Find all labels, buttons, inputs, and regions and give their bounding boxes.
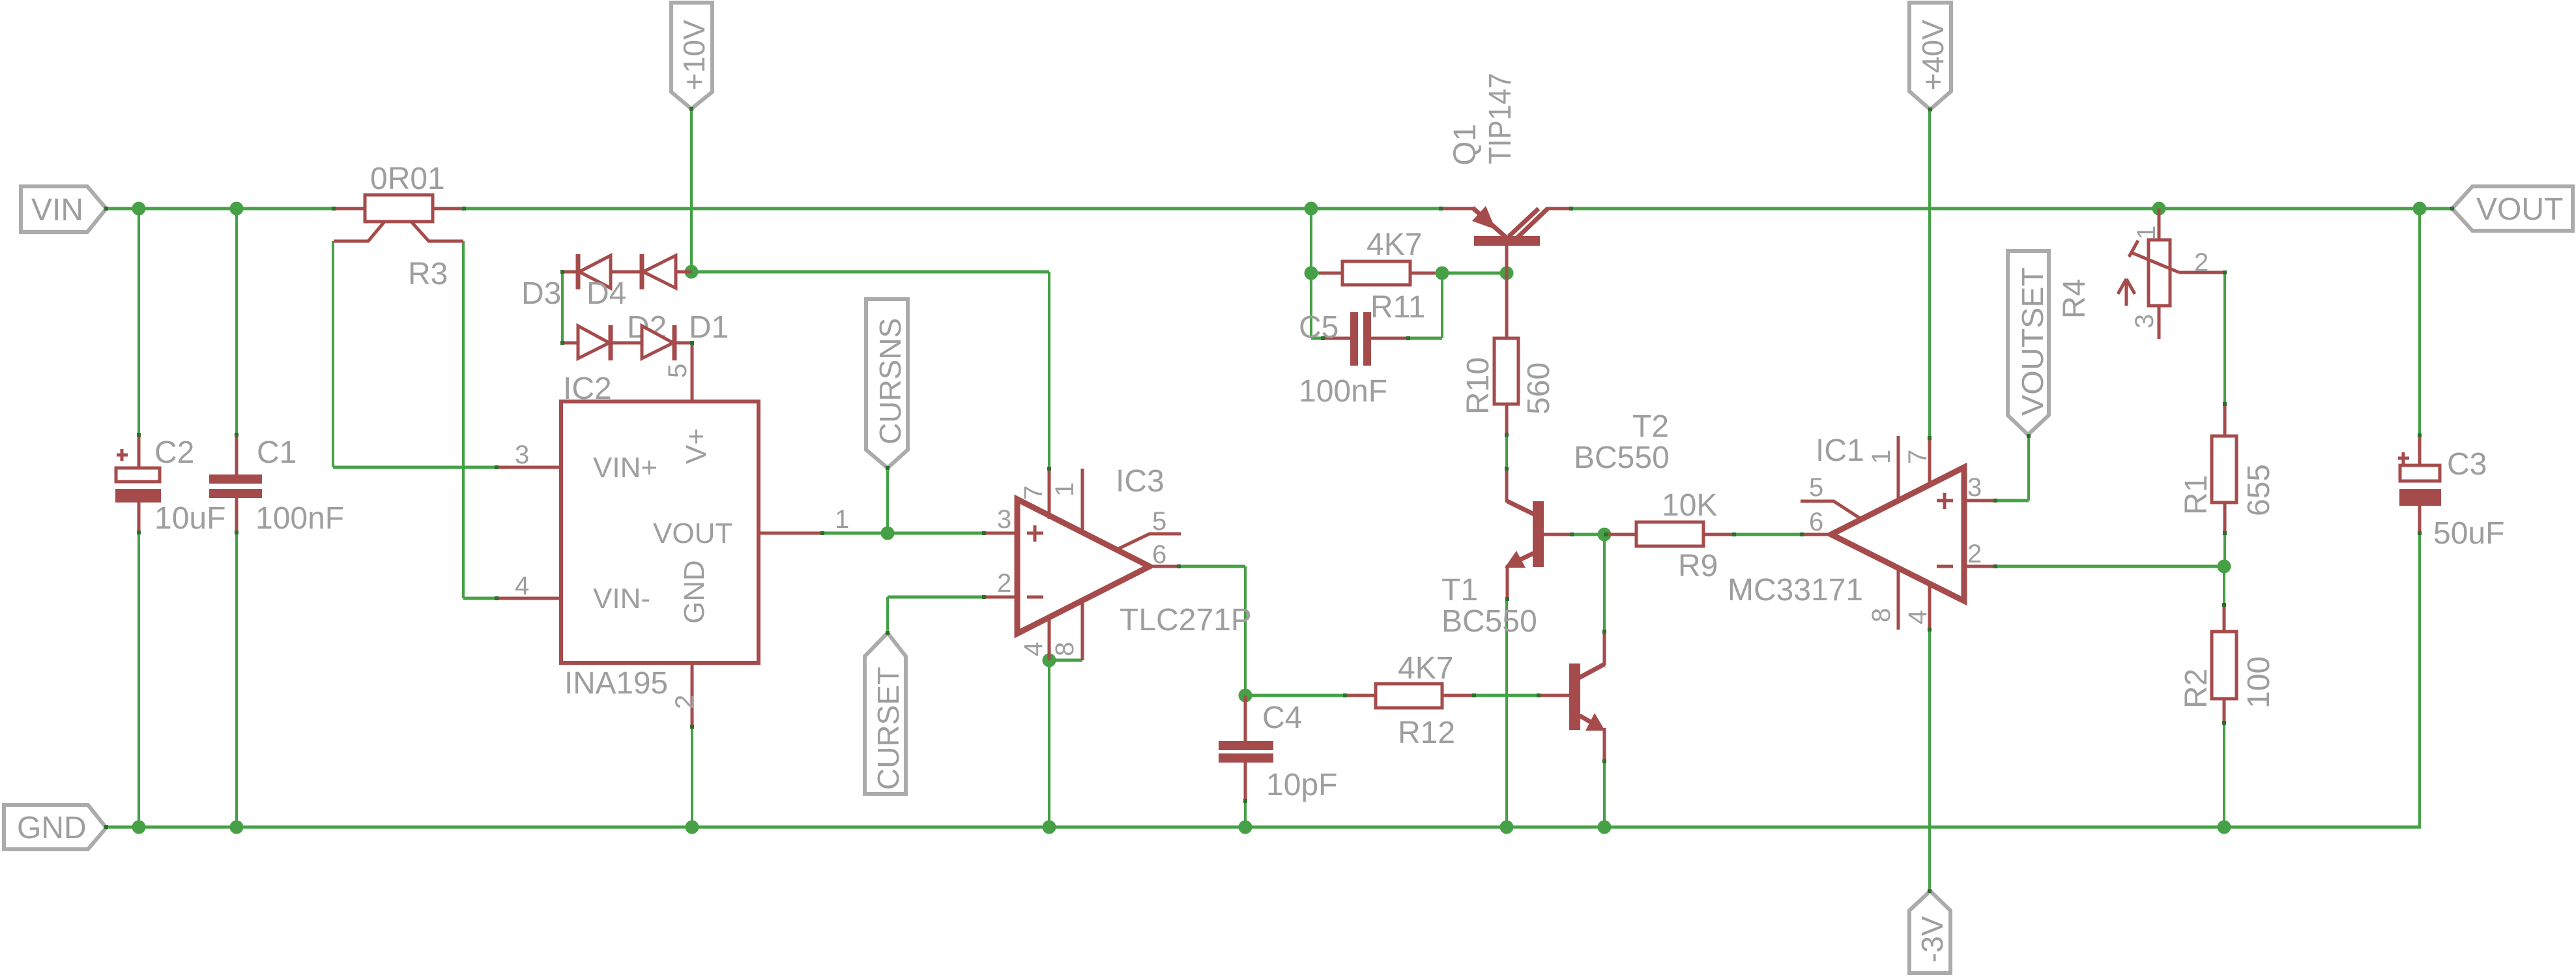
wire R11 left tiny — [1311, 272, 1319, 275]
wire CURSNS drop — [886, 468, 889, 533]
svg-text:3: 3 — [997, 505, 1011, 534]
svg-text:T2: T2 — [1632, 409, 1669, 444]
wire VOUTSET drop — [2027, 436, 2030, 501]
flag VOUTSET — [2008, 251, 2049, 435]
svg-text:C5: C5 — [1299, 310, 1339, 345]
junction R11 right C5 — [1436, 267, 1449, 280]
svg-text:R11: R11 — [1370, 290, 1426, 325]
wire VIN top rail left segment — [106, 207, 335, 211]
wire IC2 vout to IC3 plus input — [821, 532, 985, 535]
svg-text:R12: R12 — [1398, 716, 1455, 750]
wire C5 left stub — [1311, 337, 1324, 340]
wire +10V supply drop — [690, 109, 693, 272]
svg-text:D1: D1 — [689, 310, 729, 345]
svg-text:IC2: IC2 — [563, 372, 612, 406]
wire R3 sense left to IC2 pin3 — [333, 466, 498, 469]
svg-text:IC1: IC1 — [1816, 433, 1864, 468]
wire CURSET to IC3 minus input — [888, 596, 985, 599]
svg-text:8: 8 — [1867, 608, 1896, 622]
svg-text:3: 3 — [515, 441, 529, 469]
wire R1 bottom to node — [2223, 533, 2226, 566]
svg-text:5: 5 — [663, 364, 692, 378]
wire IC3 output horizontal — [1178, 565, 1245, 568]
wire R3 sense right vertical — [462, 241, 465, 598]
svg-text:1: 1 — [2132, 226, 2161, 240]
svg-text:655: 655 — [2242, 464, 2276, 516]
wire R4 wiper down to R1 — [2223, 272, 2226, 405]
svg-text:100nF: 100nF — [255, 501, 344, 536]
IC3 pin 5 stub — [1117, 507, 1181, 549]
diode D2 — [562, 310, 667, 360]
IC2 pin 1 stub — [759, 505, 849, 534]
diode D3 — [521, 254, 643, 311]
wire T1 collector to T2 base node — [1603, 534, 1606, 633]
capacitor C4 — [1219, 695, 1337, 802]
junction GND T1 emitter — [1598, 821, 1612, 834]
IC1 pin 7 supply stub — [1903, 438, 1932, 486]
svg-text:3: 3 — [2130, 314, 2159, 328]
op-amp IC3 TLC271P — [1017, 464, 1252, 637]
svg-text:4K7: 4K7 — [1398, 651, 1453, 686]
wire R12 to T1 base — [1473, 694, 1540, 697]
svg-text:0R01: 0R01 — [370, 162, 445, 196]
svg-text:1: 1 — [835, 505, 849, 534]
svg-text:VOUT: VOUT — [2476, 192, 2563, 227]
IC3 pin 1 stub — [1050, 469, 1082, 531]
IC1 pin 3 plus input stub — [1964, 473, 1995, 502]
wire C5 right vertical — [1441, 273, 1443, 338]
junction C4 node — [1239, 689, 1252, 703]
svg-text:6: 6 — [1809, 508, 1823, 536]
resistor R12 4K7 — [1346, 651, 1474, 750]
op-amp IC1 MC33171 — [1728, 433, 1964, 607]
IC1 pin 8 stub — [1867, 568, 1898, 630]
wire CURSET drop — [886, 597, 889, 633]
IC1 pin 4 stub — [1903, 583, 1932, 630]
wire VOUT down to C3 — [2418, 209, 2421, 437]
IC3 pin 8 stub — [1050, 601, 1082, 660]
svg-text:4: 4 — [1903, 610, 1932, 624]
wire +10V to IC3 pin7 vertical — [1048, 272, 1050, 470]
IC2 pin 4 stub — [497, 572, 561, 600]
IC1 pin 2 minus input stub — [1964, 540, 1995, 568]
svg-text:100: 100 — [2242, 656, 2276, 708]
junction R1 R2 divider — [2218, 560, 2231, 574]
svg-text:R2: R2 — [2179, 669, 2214, 708]
supply flag +10V — [671, 3, 712, 109]
svg-text:6: 6 — [1152, 540, 1166, 569]
svg-text:10K: 10K — [1662, 488, 1717, 523]
IC3 pin 2 minus input stub — [985, 569, 1017, 598]
svg-text:TIP147: TIP147 — [1483, 73, 1518, 164]
junction R11 left — [1305, 267, 1318, 280]
svg-text:4: 4 — [1019, 642, 1048, 656]
svg-text:-3V: -3V — [1915, 916, 1949, 963]
flag VIN — [21, 186, 106, 232]
junction VIN-C1 — [230, 202, 244, 216]
wire R3 sense left vertical — [332, 241, 334, 467]
svg-text:2: 2 — [2194, 248, 2208, 277]
wire C1 top drop — [235, 209, 238, 437]
svg-text:MC33171: MC33171 — [1728, 573, 1863, 607]
svg-text:D3: D3 — [521, 276, 561, 311]
junction Q1 base R10 — [1500, 267, 1514, 280]
wire C4 bottom to GND — [1244, 800, 1247, 827]
diode D4 — [586, 254, 692, 311]
junction top rail R4 — [2152, 202, 2166, 216]
svg-text:R10: R10 — [1461, 357, 1496, 415]
svg-text:7: 7 — [1903, 450, 1932, 464]
svg-text:TLC271P: TLC271P — [1120, 603, 1252, 637]
IC3 pin 7 supply stub — [1019, 469, 1049, 519]
wire C4 node to R12 — [1245, 694, 1346, 697]
wire IC3 output down to C4 node — [1244, 566, 1247, 695]
supply flag +40V — [1909, 3, 1951, 109]
wire R2 bottom to GND — [2223, 723, 2225, 827]
svg-text:CURSNS: CURSNS — [873, 318, 907, 445]
IC2 INA195 body — [561, 372, 759, 701]
junction GND R2 — [2218, 821, 2231, 834]
wire VIN top rail middle segment — [463, 207, 1442, 211]
svg-text:V+: V+ — [680, 428, 712, 464]
svg-text:C3: C3 — [2447, 447, 2487, 482]
wire T2 base to node — [1570, 533, 1607, 536]
svg-text:560: 560 — [1522, 362, 1556, 415]
svg-text:VIN: VIN — [31, 193, 83, 227]
wire C2 top drop — [137, 209, 140, 437]
flag VOUT — [2452, 186, 2573, 231]
svg-text:R9: R9 — [1678, 549, 1718, 583]
flag CURSNS — [866, 299, 908, 468]
wire IC1 pin3 horizontal — [1994, 499, 2029, 503]
svg-text:IC3: IC3 — [1116, 464, 1165, 499]
svg-text:50uF: 50uF — [2433, 516, 2504, 551]
wire IC2 pin5 from D1 — [691, 342, 694, 403]
junction top rail C3 — [2413, 202, 2427, 216]
svg-text:4: 4 — [515, 572, 529, 600]
svg-text:CURSET: CURSET — [871, 667, 905, 790]
wire C5 right stub — [1407, 337, 1442, 340]
wire +10V to IC3 pin7 horizontal — [691, 270, 1049, 274]
IC1 pin 5 stub — [1801, 473, 1862, 519]
capacitor C2 — [115, 435, 225, 536]
IC3 pin 3 plus input stub — [985, 505, 1017, 534]
svg-text:D4: D4 — [586, 276, 626, 311]
wire GND bottom rail — [106, 826, 2421, 829]
wire C1 bottom to GND — [235, 531, 238, 827]
IC2 pin 3 stub — [497, 441, 561, 469]
svg-text:10pF: 10pF — [1266, 768, 1337, 802]
wire T1 emitter to GND — [1603, 760, 1606, 827]
junction T2 base T1 collector — [1598, 528, 1612, 542]
IC3 pin 4 stub — [1019, 618, 1049, 660]
pin connection dots — [104, 107, 2454, 893]
wire IC3 pin4 pin8 jog — [1049, 659, 1082, 662]
svg-text:4K7: 4K7 — [1367, 227, 1422, 262]
resistor R10 560 — [1461, 273, 1556, 435]
capacitor C5 — [1299, 310, 1408, 409]
wire node to R2 top — [2223, 566, 2225, 605]
wire +40V down to IC1 pin7 — [1928, 109, 1931, 439]
svg-text:VIN-: VIN- — [593, 583, 650, 615]
resistor R1 655 — [2179, 405, 2276, 533]
wire IC1 pin2 to divider node — [1994, 565, 2224, 568]
svg-text:2: 2 — [671, 695, 699, 709]
supply flag -3V — [1909, 891, 1950, 973]
junction GND C4 — [1239, 821, 1252, 834]
svg-text:2: 2 — [1967, 540, 1982, 568]
svg-text:GND: GND — [678, 560, 710, 624]
svg-text:2: 2 — [997, 569, 1011, 598]
junction top rail R11 drop — [1305, 202, 1318, 216]
svg-text:7: 7 — [1019, 486, 1048, 500]
svg-text:+40V: +40V — [1916, 20, 1950, 91]
junction GND IC3 pin4 — [1043, 821, 1056, 834]
junction VIN-C2 — [132, 202, 146, 216]
svg-text:C2: C2 — [154, 435, 194, 470]
diode D1 — [642, 310, 729, 360]
svg-text:VOUT: VOUT — [653, 518, 732, 549]
junction CURSNS node — [881, 527, 895, 540]
junction GND T2 emitter — [1500, 821, 1514, 834]
svg-text:5: 5 — [1809, 473, 1823, 502]
IC1 pin 1 stub — [1867, 436, 1898, 501]
junction GND C2 — [132, 821, 146, 834]
svg-text:+10V: +10V — [677, 20, 711, 91]
trimmer R4 — [2057, 209, 2225, 339]
svg-text:3: 3 — [1967, 473, 1982, 502]
svg-text:1: 1 — [1867, 450, 1896, 464]
wire IC3 pin4 to GND — [1048, 660, 1050, 827]
IC3 pin 6 output stub — [1150, 540, 1179, 569]
svg-text:INA195: INA195 — [564, 666, 668, 701]
svg-text:8: 8 — [1050, 642, 1079, 656]
resistor R2 100 — [2179, 605, 2276, 724]
svg-text:R3: R3 — [408, 257, 448, 291]
svg-text:5: 5 — [1152, 507, 1166, 536]
junction GND C1 — [230, 821, 244, 834]
junction GND IC2 pin2 — [686, 821, 699, 834]
wire T2 emitter to GND — [1505, 598, 1508, 827]
wire IC1 pin4 down to -3V — [1928, 628, 1931, 891]
svg-text:C1: C1 — [257, 435, 297, 470]
wire IC2 pin2 to GND — [691, 725, 693, 827]
svg-text:Q1: Q1 — [1448, 124, 1483, 166]
transistor T2 BC550 — [1505, 409, 1670, 599]
svg-text:1: 1 — [1050, 482, 1079, 497]
wire R11 right to Q1 base node — [1434, 272, 1507, 275]
capacitor C3 — [2398, 435, 2504, 551]
junction IC3 pin4 pin8 — [1043, 654, 1056, 667]
svg-text:C4: C4 — [1262, 701, 1302, 735]
resistor R3 0R01 shunt — [334, 162, 464, 291]
wire C3 bottom to GND — [2418, 532, 2421, 827]
transistor T1 BC550 — [1441, 573, 1605, 761]
wire R9 to IC1 pin6 — [1733, 533, 1802, 536]
svg-text:R1: R1 — [2179, 475, 2214, 515]
wire C2 bottom to GND — [137, 531, 140, 827]
resistor R9 10K — [1607, 488, 1734, 583]
junction diodes +10V — [685, 265, 699, 279]
svg-text:R4: R4 — [2057, 279, 2092, 319]
svg-text:GND: GND — [17, 811, 87, 845]
capacitor C1 — [209, 435, 344, 536]
svg-text:BC550: BC550 — [1574, 441, 1670, 475]
flag GND — [4, 805, 106, 849]
svg-text:BC550: BC550 — [1441, 604, 1537, 639]
svg-text:10uF: 10uF — [154, 501, 225, 536]
wire VOUT top rail right segment — [1546, 207, 2452, 211]
svg-text:VIN+: VIN+ — [593, 452, 658, 484]
wire diode rows link — [561, 272, 564, 343]
resistor R11 4K7 — [1319, 227, 1435, 325]
IC2 pin 2 stub — [671, 663, 699, 727]
svg-text:100nF: 100nF — [1299, 374, 1387, 409]
svg-text:VOUTSET: VOUTSET — [2016, 267, 2049, 416]
IC1 pin 6 output stub — [1802, 508, 1831, 536]
flag CURSET — [865, 633, 906, 794]
transistor Q1 TIP147 — [1441, 73, 1571, 274]
wire R10 bottom to T2 collector — [1505, 433, 1508, 470]
wire R3 sense right to IC2 pin4 — [463, 597, 498, 600]
svg-text:T1: T1 — [1441, 573, 1478, 607]
wire top rail down to R11 C5 — [1310, 209, 1312, 338]
